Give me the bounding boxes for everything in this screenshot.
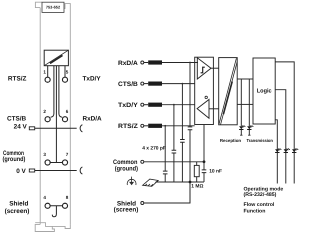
svg-text:10 nF: 10 nF (209, 169, 222, 175)
wire common rail (144, 161, 204, 163)
svg-text:CTS/B: CTS/B (7, 115, 27, 122)
svg-text:1: 1 (43, 69, 46, 74)
svg-text:1 MΩ: 1 MΩ (191, 184, 203, 190)
link wire pins 3-7 (50, 162, 62, 164)
filter choke L4 (144, 125, 148, 127)
pin 2 (45, 117, 50, 122)
svg-text:(ground): (ground) (115, 165, 138, 172)
terminal 0V (29, 169, 34, 172)
svg-text:Shield: Shield (9, 201, 28, 208)
wire receiver output to isolation (211, 67, 219, 69)
svg-text:TxD/Y: TxD/Y (83, 75, 102, 82)
receiver triangle A1 with hysteresis (197, 58, 211, 79)
wire 0V rail (35, 170, 77, 172)
wire buffer common down (203, 125, 205, 162)
node RTS/Z terminal (141, 124, 144, 127)
order number box 753-652 (42, 2, 64, 12)
wire 24V rail (35, 127, 77, 129)
wire logic to LED column 2 (275, 90, 286, 184)
carrier rail symbol (chassis) (143, 179, 159, 186)
capacitor C2 270pF branch from TxD/Y row (173, 105, 175, 182)
svg-text:2: 2 (43, 109, 46, 114)
LED Reception branch (240, 79, 242, 135)
wire stub to pin 1 (47, 66, 49, 77)
pin 5 (62, 77, 67, 82)
LED operating mode 3 (292, 148, 298, 152)
svg-text:Transmission: Transmission (246, 138, 273, 143)
earth electrode symbol (127, 177, 136, 186)
svg-text:RTS/Z: RTS/Z (118, 123, 138, 130)
svg-text:(screen): (screen) (114, 207, 139, 214)
wire RTS/Z row (162, 125, 195, 127)
electronics block U1 (box with diagonal) (44, 50, 68, 65)
svg-text:8: 8 (66, 195, 69, 200)
junction shield/ground rail (189, 181, 192, 184)
pin 1 (45, 77, 50, 82)
node Shield (screen) terminal middle (141, 202, 144, 205)
pin 4 (45, 203, 50, 208)
wire TxD/Y row (162, 104, 195, 106)
pin 7 (62, 160, 67, 165)
filter choke L2 (144, 83, 148, 85)
wire CTS/B row (162, 83, 195, 85)
svg-text:RTS/Z: RTS/Z (8, 75, 27, 82)
svg-text:TxD/Y: TxD/Y (118, 102, 139, 109)
pin 8 (62, 203, 67, 208)
wire driver input from isolation (209, 108, 219, 110)
svg-text:Flow control: Flow control (244, 202, 275, 208)
junction common/buffer (203, 160, 206, 163)
capacitor C4 270pF branch from RxD/A row (189, 63, 191, 204)
driver triangle A2 (197, 100, 209, 119)
internal ground rail (157, 181, 204, 183)
power jumper contact 24V (80, 125, 82, 132)
capacitor C5 10nF (203, 162, 205, 182)
svg-text:5: 5 (66, 69, 69, 74)
svg-text:7: 7 (66, 152, 69, 157)
pin 3 (45, 160, 50, 165)
node RxD/A terminal (141, 61, 144, 64)
svg-text:(ground): (ground) (3, 156, 26, 163)
filter choke L3 (144, 104, 148, 106)
capacitor C3 270pF branch from CTS/B row (181, 84, 183, 182)
svg-text:RxD/A: RxD/A (118, 60, 138, 67)
node CTS/B terminal (141, 82, 144, 85)
svg-text:Reception: Reception (220, 138, 242, 143)
pin 6 (62, 117, 67, 122)
node TxD/Y terminal (141, 103, 144, 106)
wire isolation to logic lower (237, 103, 253, 105)
wire to pin 6 (59, 66, 62, 118)
svg-text:(screen): (screen) (5, 208, 30, 215)
svg-text:Logic: Logic (257, 88, 272, 95)
LED operating mode 1 (275, 148, 281, 152)
svg-text:CTS/B: CTS/B (118, 81, 138, 88)
LED Transmission branch (248, 79, 250, 135)
resistor R1 1MOhm (196, 162, 198, 182)
capacitor C1 270pF branch from RTS/Z row (164, 126, 166, 182)
node Common (ground) terminal middle (141, 160, 144, 163)
wire shield to ground rail (144, 182, 190, 203)
svg-text:0 V: 0 V (16, 168, 26, 175)
terminal 24V (29, 127, 34, 130)
logic box (253, 58, 275, 124)
module foot (35, 223, 70, 232)
wire logic to LED column 3 (275, 120, 277, 184)
wire center to pins 3/7 (55, 66, 57, 163)
wire stub to pin 5 (64, 66, 66, 77)
filter choke L1 (144, 62, 148, 64)
svg-text:RxD/A: RxD/A (83, 115, 103, 122)
svg-text:4 x 270 pF: 4 x 270 pF (142, 145, 166, 151)
link wire pins 4-8 with shield hook (50, 206, 62, 217)
module housing body outline (35, 2, 70, 231)
power jumper contact 0V (80, 167, 82, 174)
svg-text:Function: Function (244, 208, 266, 214)
svg-text:4: 4 (43, 195, 46, 200)
svg-text:24 V: 24 V (14, 124, 28, 131)
wire logic to LED column 1 (275, 62, 294, 184)
svg-text:3: 3 (43, 152, 46, 157)
isolation barrier box (galvanic separation) (219, 58, 238, 125)
svg-text:6: 6 (66, 109, 69, 114)
enable bubble on driver (205, 96, 207, 98)
LED operating mode 2 (284, 148, 290, 152)
buffer box U2 (195, 57, 214, 124)
wire isolation to logic upper (237, 78, 253, 80)
svg-text:753-652: 753-652 (46, 5, 61, 10)
wire to pin 2 (51, 66, 54, 118)
svg-text:(RS-232/-485): (RS-232/-485) (244, 192, 277, 198)
wire RxD/A row (162, 62, 198, 64)
